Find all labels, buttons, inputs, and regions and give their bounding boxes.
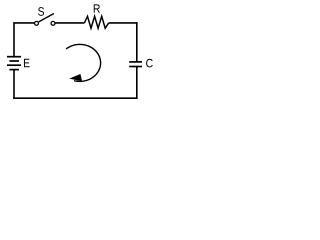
wire right vertical lower	[136, 67, 138, 100]
resistor R	[84, 16, 108, 28]
battery E plate 2 short	[9, 60, 19, 62]
switch S contact right	[51, 21, 55, 25]
battery E plate 3 long	[7, 64, 21, 66]
wire left vertical upper	[13, 22, 15, 56]
battery E plate 4 short	[9, 69, 19, 71]
wire top-right segment	[109, 22, 138, 24]
switch S contact left	[35, 21, 39, 25]
label S	[38, 7, 44, 16]
wire bottom	[13, 97, 137, 99]
wire right vertical upper	[136, 22, 138, 62]
wire switch to resistor	[55, 22, 84, 24]
wire left vertical lower	[13, 70, 15, 99]
current direction arc	[66, 44, 100, 81]
label E	[24, 59, 30, 67]
capacitor C plate top	[129, 61, 142, 63]
label R	[94, 4, 100, 12]
label C	[146, 59, 153, 68]
switch S blade	[39, 14, 54, 22]
wire top-left segment	[14, 22, 34, 24]
current direction arrowhead	[69, 74, 82, 81]
capacitor C plate bottom	[129, 66, 142, 68]
battery E plate 1 long	[7, 56, 21, 58]
